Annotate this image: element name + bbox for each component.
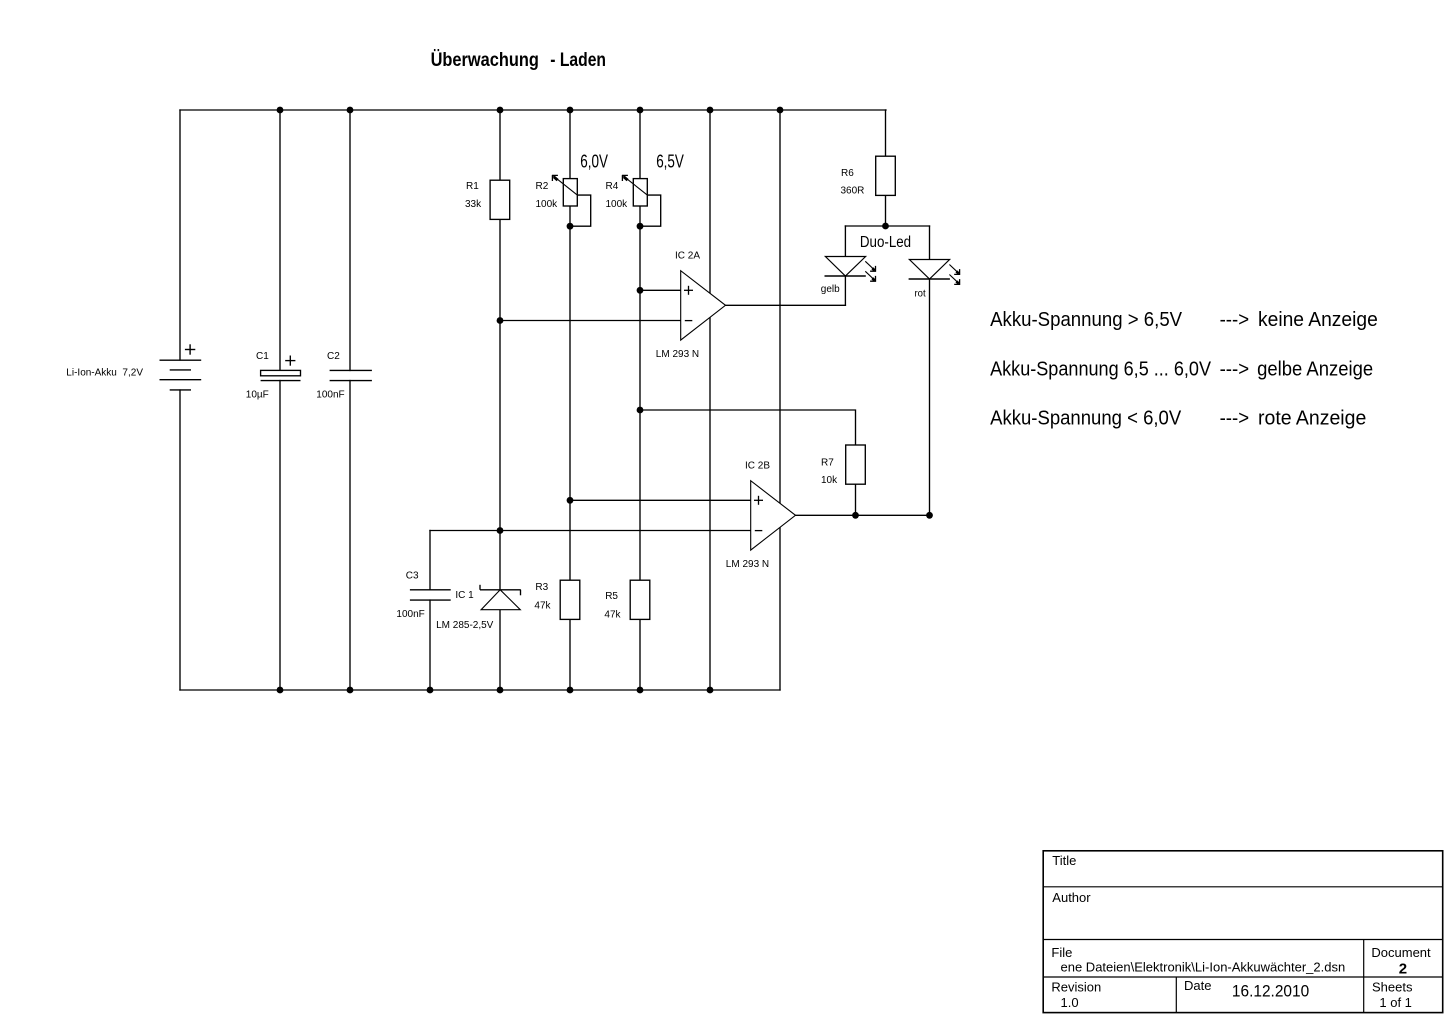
wire R6 drop x=885.5: [885, 110, 887, 156]
svg-text:R6: R6: [841, 168, 854, 179]
svg-text:ene Dateien\Elektronik\Li-Ion-: ene Dateien\Elektronik\Li-Ion-Akkuwächte…: [1061, 960, 1346, 975]
wire IC2A output to gelb LED: [726, 304, 846, 306]
wire IC2B output: [796, 514, 930, 516]
svg-text:gelb: gelb: [821, 284, 840, 295]
svg-text:100k: 100k: [536, 199, 559, 210]
svg-text:2: 2: [1399, 961, 1407, 978]
capacitor C2: [330, 370, 372, 380]
node R7 top junction: [637, 407, 644, 414]
wire R4 wiper connector: [640, 195, 661, 226]
wire R2 / R3 branch x=570: [569, 110, 571, 690]
svg-text:--->: --->: [1220, 408, 1250, 430]
wire IC2B - input: [430, 530, 751, 532]
svg-text:100nF: 100nF: [396, 609, 424, 620]
svg-text:100k: 100k: [606, 199, 629, 210]
node IC2B + input junction: [567, 497, 574, 504]
wire plain branch x=780: [779, 110, 781, 690]
svg-text:gelbe Anzeige: gelbe Anzeige: [1257, 358, 1373, 380]
node IC2B - input junction: [497, 527, 504, 534]
svg-text:IC 2A: IC 2A: [675, 251, 700, 262]
node R2 wiper junction: [567, 223, 574, 230]
svg-text:R5: R5: [605, 591, 618, 602]
LED D1 gelb: [825, 257, 877, 282]
wire top supply rail: [180, 109, 886, 111]
wire R2 wiper connector: [570, 195, 591, 226]
annotation text block right: [990, 309, 1378, 430]
svg-text:R1: R1: [466, 181, 479, 192]
wire R4 / R5 branch x=640: [639, 110, 641, 690]
svg-text:47k: 47k: [604, 609, 621, 620]
node R6 bottom junction: [882, 223, 889, 230]
svg-text:Author: Author: [1052, 890, 1091, 905]
battery plus sign: [185, 344, 195, 354]
node R7 bottom junction: [852, 512, 859, 519]
wire LED header y=226: [845, 225, 929, 227]
svg-text:100nF: 100nF: [316, 390, 344, 401]
wire R7 top connection y=410: [640, 410, 856, 445]
svg-text:C1: C1: [256, 351, 269, 362]
svg-text:1 of 1: 1 of 1: [1379, 995, 1412, 1010]
svg-text:C3: C3: [406, 570, 419, 581]
svg-text:1.0: 1.0: [1061, 995, 1079, 1010]
wire C2 branch x=350: [349, 110, 351, 370]
svg-text:Überwachung: Überwachung: [431, 48, 539, 71]
wire battery branch x=180: [179, 110, 181, 360]
svg-text:Title: Title: [1052, 853, 1076, 868]
svg-text:Revision: Revision: [1051, 979, 1101, 994]
capacitor C1 (electrolytic): [261, 356, 301, 381]
svg-text:10k: 10k: [821, 475, 838, 486]
svg-text:Duo-Led: Duo-Led: [860, 234, 911, 251]
svg-text:Sheets: Sheets: [1372, 979, 1413, 994]
title block frame: [1043, 851, 1443, 1013]
op-amp U1 IC2A LM293: [681, 271, 726, 340]
resistor R6 360R: [876, 156, 896, 195]
svg-text:Akku-Spannung < 6,0V: Akku-Spannung < 6,0V: [990, 408, 1182, 430]
svg-text:R7: R7: [821, 458, 834, 469]
svg-text:C2: C2: [327, 351, 340, 362]
title block text: [1051, 853, 1431, 1010]
svg-text:IC 1: IC 1: [455, 590, 474, 601]
wire R7 bottom: [855, 484, 857, 515]
svg-text:- Laden: - Laden: [550, 49, 606, 71]
svg-text:360R: 360R: [841, 186, 865, 197]
svg-text:R2: R2: [536, 181, 549, 192]
capacitor C3: [410, 590, 451, 600]
svg-text:rot: rot: [915, 288, 926, 299]
potentiometer R4 100k: [622, 175, 647, 206]
wire C3 branch x=430: [429, 531, 431, 590]
node IC2A + input junction: [637, 287, 644, 294]
battery B1 Li-Ion-Akku plates: [160, 360, 202, 390]
svg-text:--->: --->: [1220, 309, 1250, 331]
svg-text:10µF: 10µF: [246, 390, 269, 401]
wire IC2B + input: [570, 499, 751, 501]
svg-text:IC 2B: IC 2B: [745, 461, 770, 472]
resistor R1 33k: [490, 180, 510, 219]
resistor R7 10k: [846, 445, 866, 484]
resistor R5 47k: [630, 580, 650, 619]
svg-text:6,0V: 6,0V: [580, 152, 608, 172]
resistor R3 47k: [560, 580, 580, 619]
wire IC2A + input: [640, 289, 681, 291]
svg-text:Akku-Spannung > 6,5V: Akku-Spannung > 6,5V: [990, 309, 1183, 331]
svg-text:--->: --->: [1220, 358, 1250, 380]
wire R1 / IC1 branch x=500: [499, 110, 501, 590]
wire rot LED drop: [929, 226, 931, 515]
svg-text:16.12.2010: 16.12.2010: [1232, 982, 1309, 1001]
node bottom rail junctions: [277, 687, 284, 694]
svg-text:LM 285-2,5V: LM 285-2,5V: [436, 620, 494, 631]
svg-text:keine Anzeige: keine Anzeige: [1258, 309, 1378, 331]
svg-text:R3: R3: [535, 582, 548, 593]
svg-text:Date: Date: [1184, 978, 1211, 993]
LED D2 rot: [909, 260, 961, 285]
op-amp U2 IC2B LM293: [751, 481, 796, 550]
node reference to IC2A - junction: [497, 317, 504, 324]
svg-text:33k: 33k: [465, 199, 482, 210]
svg-text:Document: Document: [1371, 945, 1431, 960]
wire C1 branch x=280: [279, 110, 281, 370]
voltage reference IC1 LM285-2,5V: [480, 585, 521, 610]
svg-text:LM 293 N: LM 293 N: [726, 559, 769, 570]
wire IC2A - input from reference node: [500, 320, 681, 322]
svg-text:Li-Ion-Akku 7,2V: Li-Ion-Akku 7,2V: [66, 368, 143, 379]
wire bottom ground rail: [180, 689, 780, 691]
potentiometer R2 100k: [552, 175, 577, 206]
svg-text:Akku-Spannung 6,5 ... 6,0V: Akku-Spannung 6,5 ... 6,0V: [990, 358, 1211, 380]
wire plain branch x=710: [709, 110, 711, 690]
svg-text:6,5V: 6,5V: [656, 152, 684, 172]
svg-text:R4: R4: [606, 181, 619, 192]
node R4 wiper junction: [637, 223, 644, 230]
node top rail junctions: [277, 107, 284, 114]
wire gelb LED drop: [844, 226, 846, 305]
svg-text:rote Anzeige: rote Anzeige: [1258, 408, 1366, 430]
svg-text:47k: 47k: [534, 601, 551, 612]
node rot LED output junction: [926, 512, 933, 519]
svg-text:File: File: [1051, 945, 1072, 960]
svg-text:LM 293 N: LM 293 N: [656, 349, 699, 360]
